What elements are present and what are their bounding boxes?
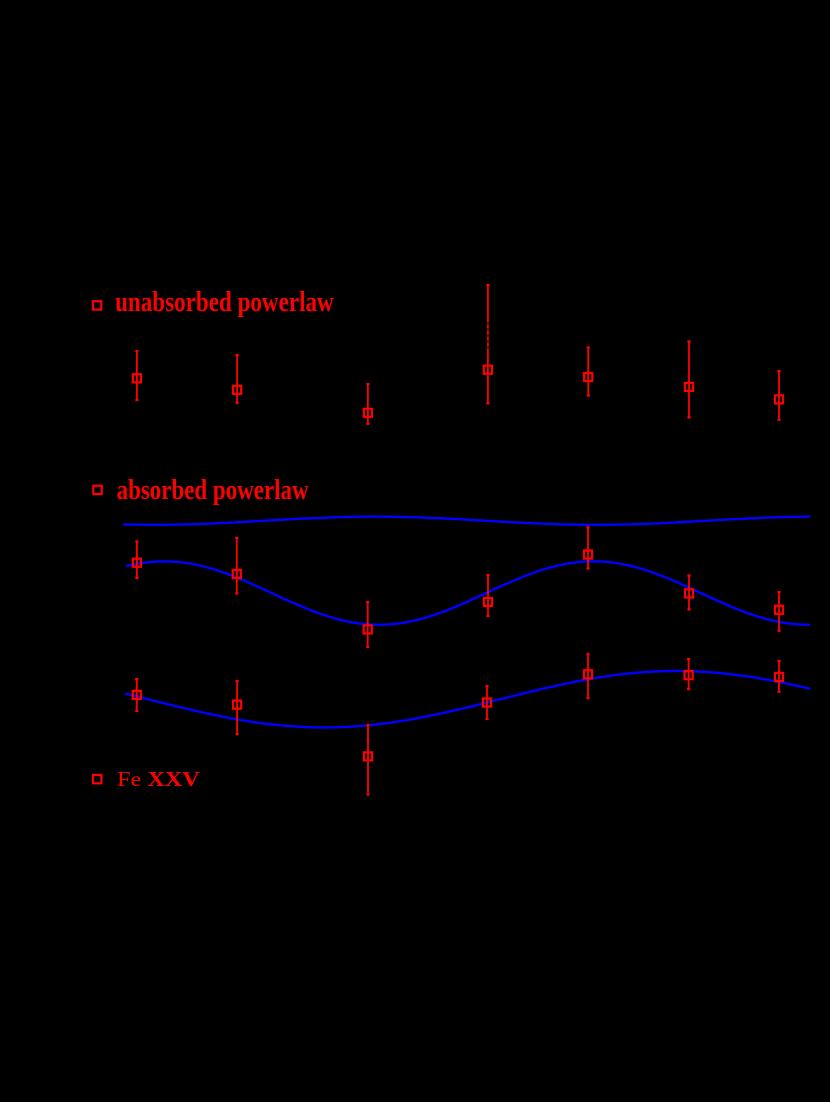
svg-text:Fe XXV: Fe XXV: [117, 767, 200, 791]
svg-text:unabsorbed powerlaw: unabsorbed powerlaw: [115, 287, 334, 318]
svg-text:absorbed powerlaw: absorbed powerlaw: [117, 475, 310, 506]
